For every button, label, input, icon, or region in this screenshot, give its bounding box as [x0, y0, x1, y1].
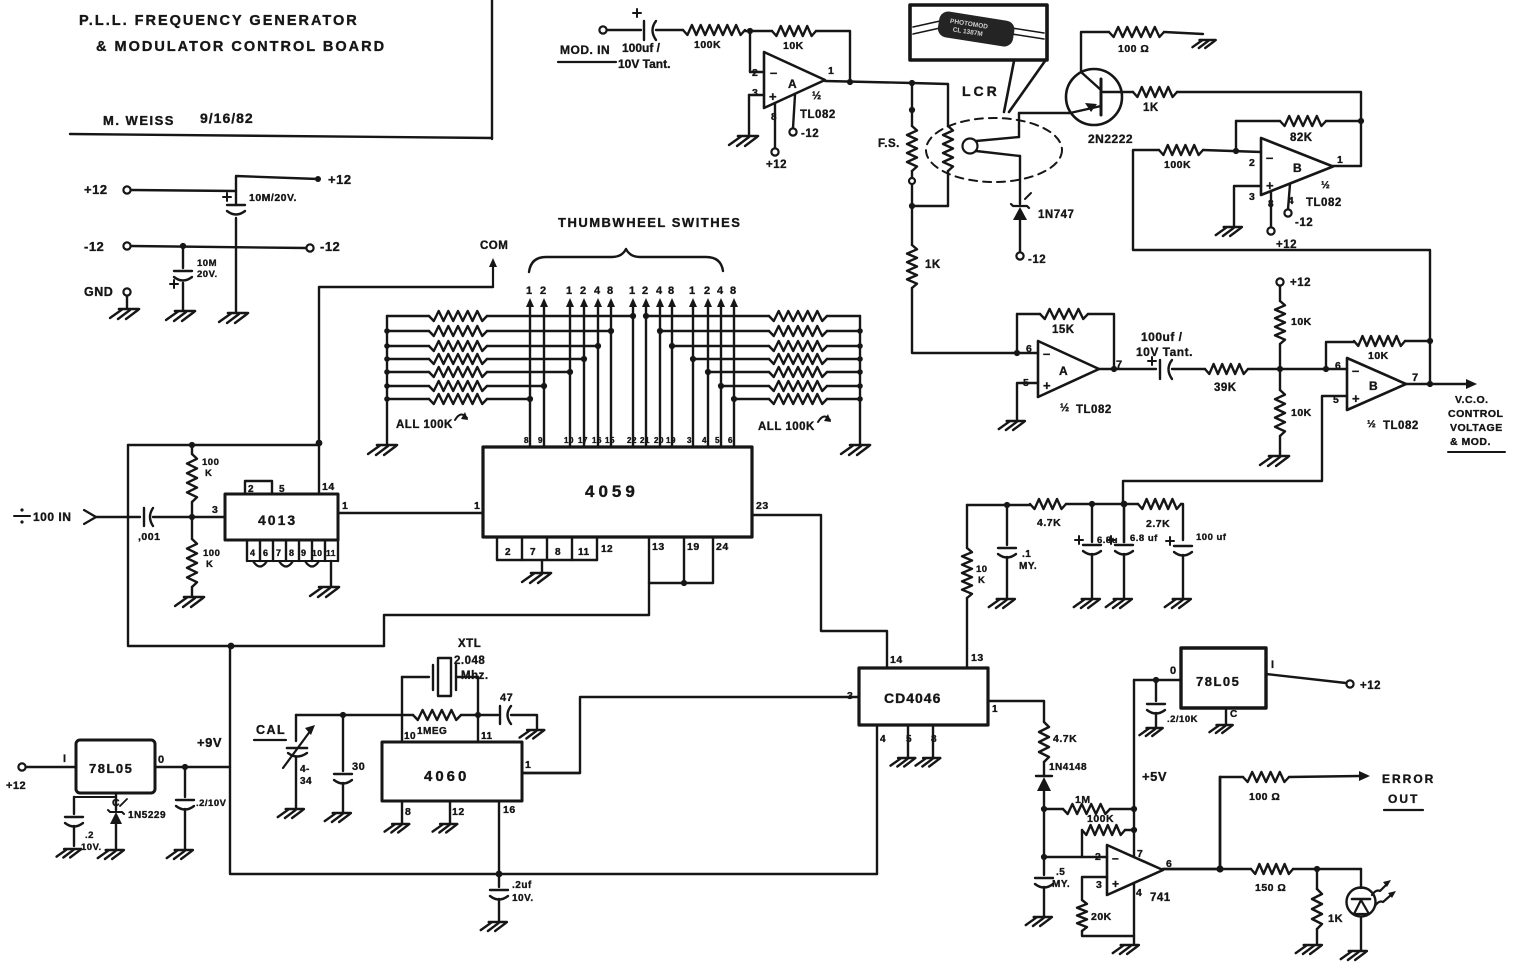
author/date text: [103, 110, 254, 128]
junction 1M: [1041, 806, 1047, 812]
wire pin3/20K: [1082, 877, 1107, 900]
ground 741: [1113, 945, 1139, 954]
svg-text:A: A: [788, 77, 797, 91]
svg-text:I: I: [1271, 659, 1275, 671]
svg-text:2: 2: [704, 285, 711, 297]
wire C5 to 39K: [1172, 368, 1205, 370]
ground C14: [520, 730, 545, 739]
resistor R20 4.7K: [1039, 722, 1077, 762]
resistor R26 1K: [1312, 869, 1343, 944]
svg-text:ALL 100K: ALL 100K: [758, 421, 815, 433]
svg-text:VOLTAGE: VOLTAGE: [1450, 422, 1503, 434]
ground right bank: [841, 445, 870, 455]
svg-text:–: –: [1352, 363, 1360, 378]
svg-text:3: 3: [1096, 879, 1102, 891]
svg-text:30: 30: [352, 761, 365, 773]
thumbwheel switch columns with pin numbers: [524, 285, 738, 447]
svg-text:78L05: 78L05: [89, 761, 133, 776]
svg-text:-12: -12: [84, 239, 104, 254]
wire node B to output: [1360, 121, 1362, 166]
ground R7: [1192, 40, 1215, 48]
wire collector: [1081, 32, 1109, 72]
svg-text:4: 4: [702, 436, 707, 445]
node -12 terminal (zener): [1016, 252, 1046, 266]
op-amp U4A triangle: [1023, 341, 1123, 416]
junction divider: [1277, 366, 1283, 372]
capacitor C16 .5MY: [1035, 857, 1070, 916]
label ERROR OUT: [1382, 772, 1435, 810]
wire C4 to R3: [656, 29, 683, 31]
svg-text:741: 741: [1150, 892, 1171, 904]
U1A pin8 +12: [766, 103, 787, 171]
svg-text:.1: .1: [1022, 549, 1031, 560]
svg-text:3: 3: [212, 504, 218, 516]
wire R8 to node B: [1177, 92, 1361, 121]
svg-text:10K: 10K: [1368, 350, 1389, 362]
capacitor C5 100uf tant: [1136, 330, 1193, 379]
svg-text:ALL 100K: ALL 100K: [396, 419, 453, 431]
CD4046 pin13 label: [971, 652, 984, 664]
svg-text:4: 4: [656, 285, 663, 297]
wire MOD IN: [607, 29, 641, 31]
lamp LCR: [963, 137, 1021, 156]
svg-text:.5: .5: [1056, 867, 1065, 878]
svg-text:1: 1: [1337, 154, 1343, 166]
capacitor C17 .2/10K: [1147, 680, 1198, 727]
svg-text:12: 12: [452, 806, 465, 818]
svg-text:F.S.: F.S.: [878, 138, 900, 150]
wire U1A output: [825, 81, 912, 83]
wire 4013 pin1 to 4059 pin1: [338, 500, 483, 513]
junction FS bottom: [909, 203, 915, 209]
zener D1 1N747: [1011, 193, 1074, 221]
svg-text:K: K: [978, 575, 985, 586]
svg-text:COM: COM: [480, 240, 508, 252]
wire R9 left to long loop: [1133, 150, 1430, 340]
wire zener to -12: [1019, 220, 1021, 252]
svg-text:10M/20V.: 10M/20V.: [249, 192, 297, 204]
svg-text:10V Tant.: 10V Tant.: [618, 57, 670, 71]
ground C7: [1074, 599, 1100, 608]
wire 4059 pin23: [752, 500, 887, 668]
svg-text:9/16/82: 9/16/82: [200, 110, 254, 126]
svg-text:1N4148: 1N4148: [1049, 762, 1087, 773]
wire pin5 to ground: [1017, 383, 1038, 420]
input arrow: [84, 510, 140, 524]
svg-text:100: 100: [203, 548, 220, 559]
ground C9: [1165, 599, 1191, 608]
svg-text:6: 6: [1335, 360, 1341, 372]
wire C3 to 4013 pin3: [153, 516, 225, 518]
svg-text:19: 19: [666, 436, 676, 445]
svg-text:9: 9: [538, 436, 543, 445]
CD4046 pin14 label: [890, 654, 903, 666]
resistor R19 1MEG: [402, 710, 478, 737]
wire U4A out: [1099, 368, 1156, 370]
U1B pin8 +12: [1267, 191, 1297, 251]
junction out/loop: [1427, 381, 1433, 387]
wire 741 output: [1163, 868, 1220, 871]
wire pin3 to ground: [749, 95, 764, 135]
svg-text:1K: 1K: [1143, 102, 1159, 114]
capacitor C3 .001: [138, 508, 160, 543]
ground GND: [110, 309, 139, 319]
junction pin2/82K: [1233, 148, 1239, 154]
ground U1A pin3: [729, 136, 758, 146]
svg-text:+12: +12: [766, 159, 787, 171]
svg-text:10V.: 10V.: [81, 842, 102, 853]
capacitor C9 100uf: [1166, 504, 1227, 598]
svg-text:100uf /: 100uf /: [1141, 330, 1183, 344]
svg-text:3: 3: [752, 87, 758, 99]
capacitor C13 30: [334, 715, 365, 812]
photo component body: [937, 10, 1016, 48]
svg-text:–: –: [1112, 851, 1119, 865]
svg-text:4059: 4059: [585, 482, 639, 501]
svg-text:8: 8: [524, 436, 529, 445]
svg-text:-12: -12: [1028, 254, 1046, 266]
wire pin6: [1012, 352, 1038, 354]
title block border: [70, 0, 492, 139]
svg-text:B: B: [1293, 161, 1302, 175]
svg-text:100: 100: [202, 457, 219, 468]
junction 1K/LED: [1314, 866, 1320, 872]
svg-text:3: 3: [687, 436, 692, 445]
svg-text:1N747: 1N747: [1038, 209, 1074, 221]
svg-text:I: I: [63, 753, 67, 765]
svg-text:+: +: [1352, 391, 1360, 406]
junction 100K/+5V: [1131, 827, 1137, 833]
svg-text:10: 10: [564, 436, 574, 445]
resistor R7 100R: [1109, 27, 1164, 55]
svg-text:4: 4: [1136, 887, 1142, 899]
IC U7 4060 box: [382, 742, 522, 801]
op-amp U8 741 triangle: [1095, 845, 1172, 904]
svg-text:6.8 uf: 6.8 uf: [1130, 533, 1158, 544]
brace: [529, 249, 723, 272]
svg-text:2: 2: [642, 285, 649, 297]
svg-text:2.7K: 2.7K: [1146, 518, 1170, 530]
wire 4059 gnd pins to ground: [541, 560, 543, 572]
resistor R8 1K: [1133, 87, 1177, 114]
capacitor C10 .2/10V: [176, 767, 227, 849]
capacitor C15 .2uf: [490, 874, 534, 921]
wire FS top: [911, 83, 913, 126]
node +12 input terminal: [84, 182, 131, 197]
node GND terminal: [84, 285, 131, 299]
capacitor C8 6.8uf: [1107, 504, 1158, 598]
4060 pin1 wire: [522, 759, 580, 773]
svg-text:+12: +12: [1360, 680, 1381, 692]
resistor R13 10K upper: [1275, 286, 1312, 369]
svg-text:+12: +12: [328, 172, 352, 187]
svg-text:+: +: [1112, 877, 1120, 891]
wire U1B output: [1333, 165, 1361, 167]
78L05 pin C / zener D2 1N5229: [108, 793, 166, 849]
resistor R23 20K: [1077, 900, 1112, 931]
ground 4059 pins: [522, 573, 551, 583]
wire R9 to pin2: [1203, 150, 1261, 152]
CD4046 pin8 gnd: [916, 725, 941, 767]
svg-text:8: 8: [730, 285, 737, 297]
svg-text:1: 1: [689, 285, 696, 297]
wire C2 to ground: [182, 283, 184, 310]
node -12 out terminal: [306, 239, 340, 254]
junction -12/C2: [180, 243, 186, 249]
junction .1MY: [1004, 502, 1010, 508]
ground U4A pin5: [999, 421, 1025, 430]
junction pin3/100K: [189, 514, 195, 520]
ground left bank: [368, 445, 397, 455]
svg-text:10K: 10K: [1291, 407, 1312, 419]
svg-text:TL082: TL082: [1076, 404, 1112, 416]
svg-text:1: 1: [474, 500, 480, 512]
78L05-2 pin C gnd: [1209, 708, 1237, 733]
svg-text:16: 16: [503, 804, 516, 816]
junction fb/loop: [1427, 338, 1433, 344]
resistor bank left (ALL 100K): [387, 311, 636, 404]
svg-text:+12: +12: [6, 780, 26, 792]
label ALL 100K left: [396, 412, 468, 431]
resistor R4 10K feedback: [772, 26, 816, 52]
svg-text:V.C.O.: V.C.O.: [1455, 394, 1489, 406]
wire pin2: [750, 31, 764, 72]
svg-text:+12: +12: [84, 182, 108, 197]
wire 20K to pin4 gnd: [1082, 931, 1134, 936]
svg-text:2: 2: [1249, 157, 1255, 169]
capacitor C6 .1MY: [998, 505, 1037, 598]
junction pin6/10K fb: [1323, 366, 1329, 372]
wire 78L05-2 out: [1134, 665, 1181, 680]
svg-text:K: K: [205, 468, 212, 479]
op-amp U4B triangle: [1333, 358, 1419, 432]
wire pin2: [1044, 856, 1107, 858]
resistor R18 2.7K: [1124, 499, 1181, 530]
wire U4B output: [1406, 383, 1468, 385]
ground C2: [166, 311, 195, 321]
svg-text:47: 47: [500, 692, 513, 704]
svg-text:100 uf: 100 uf: [1196, 532, 1227, 543]
svg-text:8: 8: [405, 806, 411, 818]
svg-text:16: 16: [592, 436, 602, 445]
wire diode node down: [1043, 809, 1045, 857]
capacitor C1 10M/20V: [223, 192, 297, 215]
junction 15K tap: [1014, 350, 1020, 356]
svg-text:1: 1: [526, 285, 533, 297]
wire 4059 pin24: [713, 537, 729, 583]
CD4046 pin3 wire: [522, 690, 859, 773]
svg-text:12: 12: [601, 544, 613, 555]
junction node A (pin14/left rail): [316, 440, 323, 447]
svg-text:13: 13: [971, 652, 984, 664]
label ALL 100K right: [758, 414, 831, 433]
wire 39K to divider: [1248, 368, 1280, 370]
ground C12: [278, 809, 304, 818]
transistor Q1 2N2222: [1066, 69, 1133, 146]
LED D4: [1347, 869, 1397, 950]
ground C1: [219, 313, 248, 323]
capacitor C2 10M/20V: [170, 246, 218, 288]
wire left rail top: [128, 444, 319, 446]
svg-text:½: ½: [1367, 418, 1376, 430]
svg-text:100 Ω: 100 Ω: [1249, 791, 1280, 803]
svg-text:-12: -12: [801, 128, 819, 140]
wire to error out: [1289, 776, 1360, 777]
resistor R17 4.7K: [1030, 499, 1066, 529]
ground divider: [1260, 456, 1289, 466]
svg-text:3: 3: [1249, 191, 1255, 203]
svg-text:4-: 4-: [300, 764, 310, 775]
resistor R15 10K feedback: [1326, 336, 1430, 369]
svg-text:4013: 4013: [258, 512, 297, 528]
junction 4060 pin16 tap: [496, 871, 503, 878]
wire R4 to output: [816, 31, 850, 81]
svg-text:0: 0: [158, 754, 165, 766]
svg-text:14: 14: [890, 654, 903, 666]
svg-text:15: 15: [605, 436, 615, 445]
resistor R3 100K: [683, 25, 745, 51]
svg-text:100uf /: 100uf /: [622, 41, 661, 55]
svg-text:2: 2: [580, 285, 587, 297]
photoresistor LCR element: [912, 126, 953, 206]
CD4046 pin5 gnd: [891, 725, 916, 767]
wire lamp to emitter: [1018, 113, 1020, 137]
node +12 input terminal (bottom): [6, 753, 76, 792]
junction feedback/out: [847, 79, 853, 85]
IC U2 4013 box: [225, 494, 338, 540]
svg-text:TL082: TL082: [1306, 197, 1342, 209]
svg-text:23: 23: [756, 500, 769, 512]
wire pin4: [1133, 884, 1135, 944]
svg-text:82K: 82K: [1290, 132, 1313, 144]
svg-text:C: C: [1230, 709, 1238, 720]
junction pin11/47: [475, 712, 481, 718]
junction out cap: [182, 764, 188, 770]
crystal Y1 2.048MHz: [402, 638, 489, 715]
label +5V: [1142, 769, 1167, 784]
diode D3 1N4148: [1036, 762, 1087, 809]
IC U6 78L05 box: [76, 740, 155, 793]
svg-text:4: 4: [880, 734, 886, 745]
junction +9V tap: [228, 643, 235, 650]
svg-text:4060: 4060: [424, 768, 469, 785]
svg-text:4: 4: [250, 548, 256, 558]
svg-text:2: 2: [248, 484, 254, 495]
4060 pin16 wire: [499, 801, 516, 874]
svg-text:17: 17: [578, 436, 588, 445]
IC U9 78L05 box: [1181, 648, 1266, 708]
wire -12 rail: [131, 246, 306, 248]
resistor R11 15K: [1017, 309, 1114, 369]
capacitor C14 47: [478, 692, 513, 724]
wire pin10 stub: [401, 715, 403, 742]
wire 4013 pin11 to ground: [330, 561, 332, 586]
4060 pin12 gnd: [433, 801, 465, 833]
ground C13: [325, 813, 351, 822]
junction out cap2: [1153, 677, 1159, 683]
node -12 input terminal: [84, 239, 131, 254]
wire trimmer to node: [296, 714, 343, 716]
left bank bus: [384, 316, 390, 444]
svg-text:2: 2: [505, 547, 511, 558]
ground D2: [98, 850, 124, 859]
junction 30pf: [340, 712, 346, 718]
svg-text:7: 7: [1412, 372, 1419, 384]
svg-text:& MOD.: & MOD.: [1450, 436, 1491, 448]
wire pins 19-24 tie: [649, 582, 713, 584]
wire 1K to opamp A2: [912, 288, 1012, 353]
wire COM to 4013 pin14: [319, 287, 493, 443]
svg-text:.2/10K: .2/10K: [1167, 714, 1198, 725]
svg-text:10: 10: [312, 548, 322, 558]
svg-text:.2/10V: .2/10V: [196, 798, 227, 809]
ground C8: [1106, 599, 1132, 608]
svg-text:MOD. IN: MOD. IN: [560, 43, 610, 57]
svg-text:Mhz.: Mhz.: [461, 670, 489, 682]
title text line 2: [96, 39, 386, 55]
wire 150R to LED: [1293, 868, 1361, 870]
svg-text:100K: 100K: [1087, 813, 1114, 825]
svg-text:8: 8: [607, 285, 614, 297]
svg-text:B: B: [1369, 379, 1378, 393]
dashed LCR outline: [926, 118, 1062, 182]
right bank bus: [857, 316, 863, 444]
capacitor C4 100uf tant: [618, 9, 670, 71]
svg-text:1: 1: [629, 285, 636, 297]
wire C1 to ground: [235, 218, 237, 313]
svg-text:1K: 1K: [925, 259, 941, 271]
4013 pin jumper arcs: [253, 561, 319, 567]
resistor R16 10K vertical: [962, 505, 988, 668]
label CAL: [254, 723, 286, 740]
svg-text:MY.: MY.: [1052, 879, 1070, 890]
svg-text:10: 10: [404, 731, 416, 742]
svg-text:10V Tant.: 10V Tant.: [1136, 345, 1193, 359]
junction rail/100K: [189, 442, 195, 448]
svg-text:4.7K: 4.7K: [1037, 517, 1061, 529]
svg-text:GND: GND: [84, 285, 113, 299]
resistor R12 39K: [1205, 364, 1248, 394]
ground LED: [1341, 951, 1367, 960]
junction out/FS: [909, 80, 915, 86]
resistor R14 10K lower: [1275, 369, 1312, 455]
ground C11: [57, 849, 82, 858]
svg-text:1K: 1K: [1328, 913, 1343, 925]
svg-text:13: 13: [652, 541, 665, 553]
svg-text:–: –: [1266, 150, 1274, 165]
svg-text:½: ½: [812, 90, 822, 102]
svg-text:+: +: [769, 89, 777, 104]
svg-text:78L05: 78L05: [1196, 674, 1240, 689]
capacitor C7 6.8uf: [1075, 504, 1118, 598]
svg-text:+5V: +5V: [1142, 769, 1167, 784]
svg-text:21: 21: [640, 436, 650, 445]
svg-text:TL082: TL082: [1383, 420, 1419, 432]
svg-text:14: 14: [322, 481, 335, 493]
svg-text:10K: 10K: [783, 40, 804, 52]
svg-text:+12: +12: [1276, 239, 1297, 251]
svg-text:+: +: [1043, 378, 1051, 393]
junction FS: [909, 107, 915, 113]
svg-text:½: ½: [1321, 179, 1330, 191]
svg-text:11: 11: [326, 548, 336, 558]
svg-text:24: 24: [716, 541, 729, 553]
svg-text:1: 1: [525, 759, 531, 771]
4060 pin8 gnd: [385, 801, 412, 833]
ground R2: [175, 597, 204, 607]
svg-text:0: 0: [1170, 665, 1177, 677]
svg-text:34: 34: [300, 776, 312, 787]
